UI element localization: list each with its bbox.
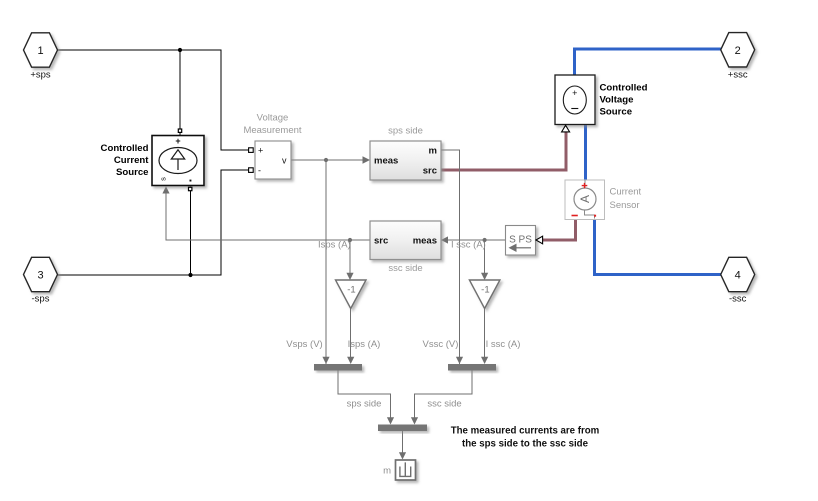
svg-text:the sps side to the ssc side: the sps side to the ssc side [462,439,589,450]
wire Issc from S PS output to ssc side meas input [448,239,506,241]
controlled current source - mark [190,180,192,182]
wire -sps net from port 3 to CCS - and VM - [58,170,249,275]
junction -sps net [188,273,192,277]
CCS bottom right port square [189,187,192,190]
svg-text:I ssc (A): I ssc (A) [486,339,521,350]
current sensor circle A [574,188,596,210]
controlled voltage source block [555,75,595,125]
svg-text:4: 4 [735,270,741,282]
svg-text:-: - [258,166,261,176]
svg-text:Source: Source [116,167,149,178]
svg-text:Source: Source [600,107,633,118]
current sensor top stub [584,180,586,189]
junction Issc net [483,238,487,242]
wire blue CVS bottom to Current Sensor top [584,124,587,181]
VM - port square [249,168,254,173]
current sensor internal elbow [585,210,595,219]
wire blue +ssc from port 2 to Controlled Voltage Source top [575,49,722,76]
svg-text:-sps: -sps [32,294,50,305]
port 3 hexagon [24,257,58,291]
svg-text:+sps: +sps [30,70,51,81]
VM + port square [249,148,254,153]
junction v net [324,158,328,162]
svg-text:m: m [429,146,437,157]
wire Issc branch to gain -1 right [484,240,486,273]
CVS bottom control port triangle [562,125,570,132]
svg-text:+: + [258,146,263,156]
svg-text:A: A [578,195,592,203]
S PS internal arrow [516,247,531,249]
S PS right physical port triangle [536,236,543,244]
svg-text:meas: meas [413,236,437,247]
wire ssc mux output to bottom mux [415,371,473,418]
svg-text:sps side: sps side [347,399,382,410]
svg-text:Vssc (V): Vssc (V) [423,339,459,350]
wire blue Current Sensor bottom to port 4 -ssc [595,219,722,275]
svg-text:src: src [374,236,388,247]
svg-text:Current: Current [114,155,149,166]
svg-text:-1: -1 [347,285,355,296]
svg-text:Sensor: Sensor [610,200,640,211]
wire Isps feedback from ssc side src to CCS s input [166,194,370,241]
svg-text:meas: meas [374,156,398,167]
CVS ellipse symbol [563,86,586,114]
port 4 hexagon [721,257,755,291]
svg-text:Voltage: Voltage [600,95,634,106]
svg-text:sps side: sps side [388,126,423,137]
junction Isps net [348,238,352,242]
current sensor - mark red [572,215,578,217]
gain -1 left [336,280,367,309]
svg-text:ssc side: ssc side [427,399,461,410]
wire physical signal Current Sensor I output to S PS converter [543,219,576,241]
svg-text:+: + [175,136,180,146]
gain -1 right [469,280,500,309]
wire physical signal src (sps side) to CVS control input [441,132,566,170]
controlled current source ellipse symbol [159,148,197,174]
current sensor + mark red [582,183,588,188]
sps mux bar [314,364,362,371]
wire gain -1 right output to ssc mux [484,309,486,357]
wire sps mux output to bottom mux [338,371,391,418]
bottom mux bar [378,425,427,432]
svg-text:s: s [159,177,168,181]
controlled current source block [152,136,204,186]
voltage measurement block [255,141,291,179]
scope block m [396,460,416,480]
wire bottom mux output to scope m [402,431,404,452]
svg-text:ssc side: ssc side [388,263,422,274]
svg-text:-1: -1 [481,285,489,296]
wire +sps net from port 1 to CCS + and VM + [58,50,249,150]
ssc mux bar [448,364,496,371]
scope icon [400,462,411,476]
svg-text:-ssc: -ssc [729,294,747,305]
ssc side subsystem block [370,221,441,260]
svg-text:The measured currents are from: The measured currents are from [451,426,600,437]
svg-text:Controlled: Controlled [101,143,149,154]
svg-text:m: m [383,466,391,477]
svg-text:Current: Current [610,187,642,198]
svg-text:Isps (A): Isps (A) [318,240,351,251]
svg-text:I ssc (A): I ssc (A) [451,240,486,251]
svg-text:S PS: S PS [509,235,532,246]
current sensor block [565,180,605,220]
svg-text:Vsps (V): Vsps (V) [286,339,322,350]
svg-text:3: 3 [37,270,43,282]
svg-text:Voltage: Voltage [257,113,289,124]
CCS top port square [178,129,181,132]
wire gain -1 left output to sps mux [350,309,352,357]
svg-text:Measurement: Measurement [243,125,301,136]
S PS converter block [506,226,536,256]
wire v measurement to sps side meas input [291,160,363,364]
svg-text:2: 2 [735,45,741,57]
svg-text:1: 1 [37,45,43,57]
svg-text:+: + [572,88,577,98]
svg-text:+ssc: +ssc [728,70,748,81]
svg-text:Controlled: Controlled [600,83,648,94]
svg-text:src: src [423,166,437,177]
port 2 hexagon [721,33,755,67]
svg-text:Isps (A): Isps (A) [348,339,381,350]
sps side subsystem block [370,141,441,180]
port 1 hexagon [24,33,58,67]
wire Isps branch to gain -1 left [349,240,351,273]
current sensor dot red [594,215,596,217]
junction +sps net [178,48,182,52]
svg-text:v: v [282,156,287,166]
wire m output of sps side down to ssc mux (Vssc) [441,150,460,364]
